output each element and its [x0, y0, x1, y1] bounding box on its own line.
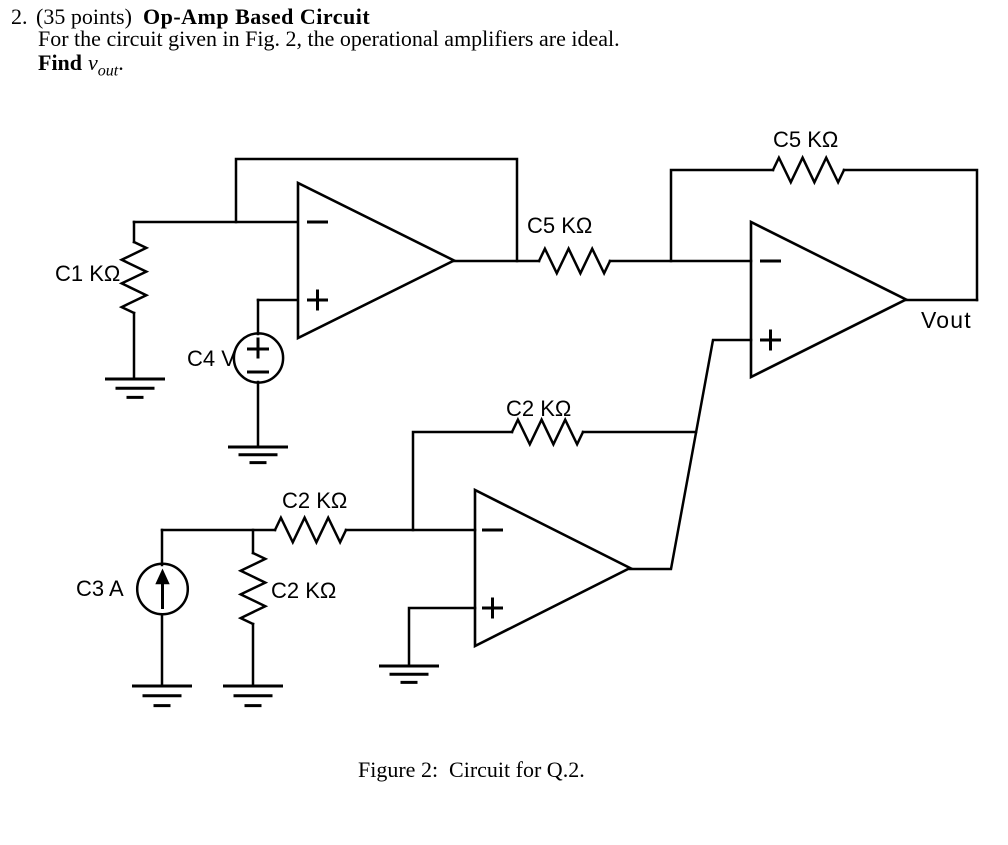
svg-text:C1 KΩ: C1 KΩ — [55, 261, 120, 286]
svg-text:C5 KΩ: C5 KΩ — [773, 127, 838, 152]
svg-text:C2 KΩ: C2 KΩ — [282, 488, 347, 513]
svg-text:C2 KΩ: C2 KΩ — [271, 578, 336, 603]
svg-text:C3 A: C3 A — [76, 576, 124, 601]
svg-text:C5 KΩ: C5 KΩ — [527, 213, 592, 238]
svg-text:Vout: Vout — [921, 307, 972, 333]
svg-text:C2 KΩ: C2 KΩ — [506, 396, 571, 421]
svg-text:C4 V: C4 V — [187, 346, 236, 371]
